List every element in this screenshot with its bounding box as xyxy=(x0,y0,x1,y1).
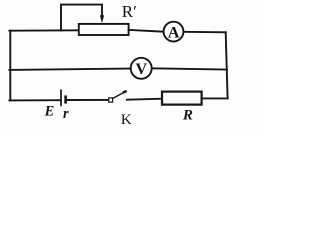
svg-text:r: r xyxy=(63,106,69,122)
svg-text:R′: R′ xyxy=(122,2,137,21)
svg-text:A: A xyxy=(168,24,180,41)
svg-text:K: K xyxy=(121,112,132,128)
svg-text:E: E xyxy=(44,104,55,120)
svg-text:V: V xyxy=(136,61,148,78)
svg-text:R: R xyxy=(182,108,193,124)
